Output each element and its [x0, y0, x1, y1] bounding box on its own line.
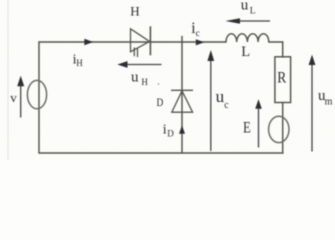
svg-text:L: L	[250, 6, 256, 16]
svg-text:D: D	[167, 129, 174, 139]
svg-text:L: L	[241, 44, 250, 60]
svg-text:i: i	[163, 122, 167, 137]
svg-text:H: H	[130, 3, 139, 18]
svg-text:c: c	[224, 100, 229, 111]
svg-text:R: R	[277, 70, 286, 87]
svg-text:u: u	[131, 69, 139, 85]
svg-text:D: D	[157, 97, 164, 109]
svg-text:H: H	[141, 77, 148, 87]
svg-text:u: u	[241, 0, 249, 13]
svg-text:H: H	[76, 58, 83, 68]
svg-text:c: c	[196, 29, 200, 39]
svg-text:v: v	[10, 90, 17, 105]
svg-text:E: E	[243, 119, 251, 136]
svg-text:m: m	[325, 96, 333, 107]
